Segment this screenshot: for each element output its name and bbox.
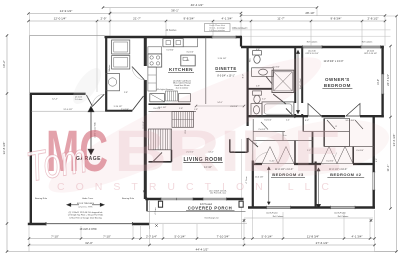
bedrooms divider wall [315,162,317,208]
owner window 1 [303,45,323,48]
closet partitions [294,141,296,165]
pantry boxes [150,94,165,102]
svg-text:12'-0 1/4": 12'-0 1/4" [54,17,67,21]
garage door line [46,223,132,225]
svg-text:4'-1 3/4": 4'-1 3/4" [352,234,363,238]
porch left wall stub [146,199,148,211]
thin partition lines [149,38,374,161]
kitchen/stair wall [149,103,191,105]
bedroom2 east window [372,172,375,190]
svg-text:ROOF TRUSSES: ROOF TRUSSES [77,203,95,205]
laundry south wall [105,110,132,112]
owner east window [381,74,384,94]
svg-text:duct to exterior: duct to exterior [176,86,189,89]
living room south window [203,198,227,201]
bedrooms north wall [254,163,374,165]
svg-text:12'-2": 12'-2" [52,98,58,100]
stair closet walls [149,161,172,163]
living room patio door [161,198,193,201]
dimension labels top [54,3,379,20]
svg-text:40'-4 1/2": 40'-4 1/2" [191,3,204,7]
mud hall door [132,96,143,111]
svg-text:Under Truss: Under Truss [82,197,93,200]
svg-text:42x Lights Dimmers: 42x Lights Dimmers [157,88,174,91]
svg-text:2'-8": 2'-8" [124,92,128,94]
svg-text:& Stud Trim at Garage Door Bea: & Stud Trim at Garage Door Bearing [69,216,101,219]
door swing arcs [92,67,336,165]
bedroom3 south window [267,206,291,209]
svg-text:(2) 1 3/4x11 7/8 2.0E LVL drop: (2) 1 3/4x11 7/8 2.0E LVL dropped hdr [69,212,103,214]
bath doors [266,76,273,84]
svg-text:28'-10": 28'-10" [305,11,314,15]
svg-text:10'-2": 10'-2" [2,60,6,68]
svg-text:7'-10 3/4": 7'-10 3/4" [217,234,230,238]
dimension labels bottom [51,228,362,251]
svg-text:OWNER'S: OWNER'S [325,77,350,82]
svg-text:4'-0": 4'-0" [376,158,378,162]
svg-text:4x4 S-Frame: 4x4 S-Frame [266,212,278,214]
svg-text:Overhang Line: Overhang Line [204,217,219,220]
laundry west wall [105,37,107,112]
svg-text:4x4 S-Frame: 4x4 S-Frame [334,212,346,214]
bedroom3 west wall [252,161,254,208]
svg-text:DINETTE: DINETTE [215,66,236,71]
bedrooms south wall [248,206,375,209]
garage bottom wall [28,223,149,226]
stairs [149,112,194,150]
top wall right section (owner's bedroom) [241,46,384,49]
svg-text:21'-7": 21'-7" [133,17,141,21]
garage bearing arrows [67,203,104,206]
svg-text:2-0 Bsmt window: 2-0 Bsmt window [209,29,225,32]
hall wall at living room [229,139,231,152]
owner window 2 [361,45,381,48]
jog at x=241 [240,36,242,47]
watermark swoosh [38,38,332,212]
svg-text:Ref Column: Ref Column [362,41,373,43]
svg-text:(2) 2x10: (2) 2x10 [367,50,375,52]
svg-text:W.C.: W.C. [250,57,252,62]
owner's closet rod [296,50,299,114]
cross marks [155,219,372,227]
svg-text:Bearing Rule: Bearing Rule [35,197,48,200]
stair closet door [153,153,162,162]
garage arrow [88,107,94,155]
bath divider wall [248,88,272,90]
door swings [86,67,363,199]
svg-text:24'-7 1/4": 24'-7 1/4" [386,74,390,86]
svg-text:27'-6 1/2": 27'-6 1/2" [316,241,329,245]
owner's suite south wall [247,115,384,117]
svg-text:36'-1": 36'-1" [171,9,179,13]
svg-text:4'-1 3/4": 4'-1 3/4" [222,17,233,21]
svg-text:OPP 4'-10 1/4": OPP 4'-10 1/4" [364,53,377,55]
owner's bedroom door wedges [308,104,360,117]
fixtures: baths [251,51,294,117]
svg-text:4'-6": 4'-6" [256,49,260,51]
hall door [248,138,258,147]
svg-text:11'-7": 11'-7" [277,17,284,21]
note box top [166,24,248,33]
bedroom2 south window [331,206,356,209]
WATERMARK [23,38,393,212]
svg-text:COVERED PORCH: COVERED PORCH [188,205,232,210]
fixtures: laundry [105,40,129,91]
bedroom arrows [267,167,320,209]
svg-text:14'-9 1/2": 14'-9 1/2" [60,9,73,13]
svg-text:34'-6 3/4": 34'-6 3/4" [392,134,396,147]
svg-text:9'-8 3/4": 9'-8 3/4" [184,17,195,21]
svg-text:16'-0x8'-0 OHD: 16'-0x8'-0 OHD [79,228,96,231]
svg-text:Ref Column: Ref Column [338,216,349,218]
garage top wall [30,93,86,95]
bedroom closet door wedges [262,147,353,164]
top wall left section (kitchen/dinette) [105,36,242,38]
svg-text:BRIDE: BRIDE [114,119,342,184]
svg-text:3'-0 1/4": 3'-0 1/4" [186,52,194,54]
svg-text:7'-10": 7'-10" [51,234,59,238]
bath west wall [247,46,249,152]
svg-text:2'-7 1/4": 2'-7 1/4" [146,234,157,238]
svg-text:5'-9 1/4": 5'-9 1/4" [262,234,273,238]
living room south wall [145,198,243,201]
island [181,55,195,66]
laundry door from kitchen [132,67,145,81]
svg-text:7'-0 1/4": 7'-0 1/4" [121,109,129,111]
svg-text:2'-9": 2'-9" [101,17,107,21]
shower [272,70,294,92]
living room corner door [143,191,147,199]
east wall lower [373,116,375,208]
east wall upper [381,46,383,118]
svg-text:13'-0": 13'-0" [377,79,380,85]
owner closet west wall [301,47,303,116]
svg-text:11'-8 3/4" x 13'-0": 11'-8 3/4" x 13'-0" [323,59,343,63]
svg-text:All Sashes: All Sashes [166,29,178,32]
svg-text:5'-10 1/2": 5'-10 1/2" [114,106,123,108]
svg-text:9'-8 3/4": 9'-8 3/4" [331,17,342,21]
svg-text:2'-8 1/2": 2'-8 1/2" [368,17,379,21]
garage/house common wall [144,37,147,199]
svg-text:(2'-0 O.C. TYP): (2'-0 O.C. TYP) [79,207,93,209]
svg-text:7'-10": 7'-10" [103,234,111,238]
svg-text:44'-4 1/2": 44'-4 1/2" [196,247,209,251]
tub [262,102,294,116]
svg-text:32'-8 3/4": 32'-8 3/4" [2,142,6,155]
windows [46,36,384,226]
dinette window [212,36,236,39]
svg-text:12'-0 1/2": 12'-0 1/2" [63,109,72,111]
svg-text:11'-8 3/4": 11'-8 3/4" [307,234,319,238]
interior walls [32,37,374,208]
porch lines [147,201,247,229]
extension line under bedrooms [244,217,373,219]
garage left wall [30,94,32,224]
interior micro labels [35,41,380,219]
roof overhang thin line top-left [30,30,391,94]
svg-text:Washer: Washer [109,64,111,71]
garage entry door V [86,94,104,106]
svg-text:Ref Column: Ref Column [273,216,284,218]
svg-text:OPE Architect'l: OPE Architect'l [232,27,248,30]
svg-text:KITCHEN: KITCHEN [169,67,193,72]
svg-text:Ref Column: Ref Column [307,41,318,43]
svg-text:w/ Simple Top Plate + Strazzi: w/ Simple Top Plate + Strazzi Furr Ends [68,214,103,217]
range [148,54,162,67]
svg-text:32'-0": 32'-0" [85,241,93,245]
svg-text:2x6 Treated: 2x6 Treated [200,203,213,206]
porch posts [158,201,243,207]
exterior walls [28,36,384,224]
closet diagonals [327,120,335,129]
svg-text:Bearing Rule: Bearing Rule [122,197,135,200]
svg-text:5'-9 3/4": 5'-9 3/4" [166,50,174,52]
fixtures: kitchen [148,39,198,102]
svg-text:BEDROOM: BEDROOM [324,83,351,88]
svg-text:11'-1": 11'-1" [386,165,390,172]
bath east wall [294,47,296,116]
svg-text:5'-0 1/4": 5'-0 1/4" [175,234,186,238]
dimension labels left/right rotated [2,60,396,171]
svg-text:5'-10 1/4": 5'-10 1/4" [218,58,227,60]
svg-text:(2) 2x10: (2) 2x10 [308,50,316,52]
svg-text:4" Conc: 4" Conc [155,207,157,214]
room labels [76,66,364,211]
svg-text:CONSTRUCTION LLC: CONSTRUCTION LLC [57,181,340,193]
svg-text:8'-0 3/4" x 10'-1": 8'-0 3/4" x 10'-1" [217,74,235,77]
svg-text:OPP 4'-10 1/4": OPP 4'-10 1/4" [305,53,318,55]
